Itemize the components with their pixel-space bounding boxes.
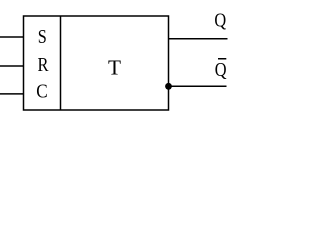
svg-text:T: T (108, 56, 121, 80)
flip-flop body U1 (24, 16, 169, 110)
wire C input (0, 93, 24, 95)
wire Q output (169, 38, 228, 40)
wire R input (0, 65, 24, 67)
svg-text:C: C (36, 80, 47, 102)
svg-text:S: S (38, 26, 47, 48)
svg-text:R: R (38, 54, 50, 76)
wire Q-bar output (169, 85, 227, 87)
internal divider (60, 16, 62, 110)
svg-text:Q: Q (214, 10, 226, 32)
wire S input (0, 36, 24, 38)
svg-text:Q: Q (215, 59, 227, 81)
junction dot (165, 83, 172, 90)
overline of Q-bar (218, 58, 226, 60)
